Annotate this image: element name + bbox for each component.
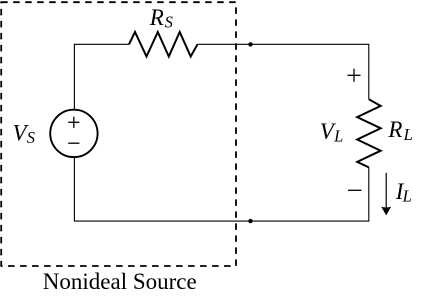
svg-text:Nonideal Source: Nonideal Source [43,269,197,294]
minus sign (load polarity) [348,189,362,191]
wire: RL bottom to bottom-right corner, bottom wire, up to VS bottom [74,157,368,221]
svg-text:R: R [387,117,402,142]
svg-text:L: L [403,125,413,144]
plus sign (load polarity) [348,69,361,82]
svg-text:S: S [27,128,35,147]
minus sign inside VS [68,142,79,144]
current arrow IL [385,173,387,209]
node: top junction dot [248,42,252,46]
resistor RS [129,32,198,57]
resistor RL [357,99,381,167]
svg-text:L: L [333,127,343,146]
wire: RS right to top-right corner down to RL top [198,44,369,99]
svg-text:L: L [402,187,412,206]
svg-text:S: S [165,13,173,32]
plus sign inside VS [68,117,79,128]
dashed box (nonideal source boundary) [1,2,236,266]
node: bottom junction dot [248,219,252,223]
wire: VS top to RS left [74,44,129,110]
svg-text:R: R [149,5,164,30]
voltage source VS (circle) [50,110,97,157]
